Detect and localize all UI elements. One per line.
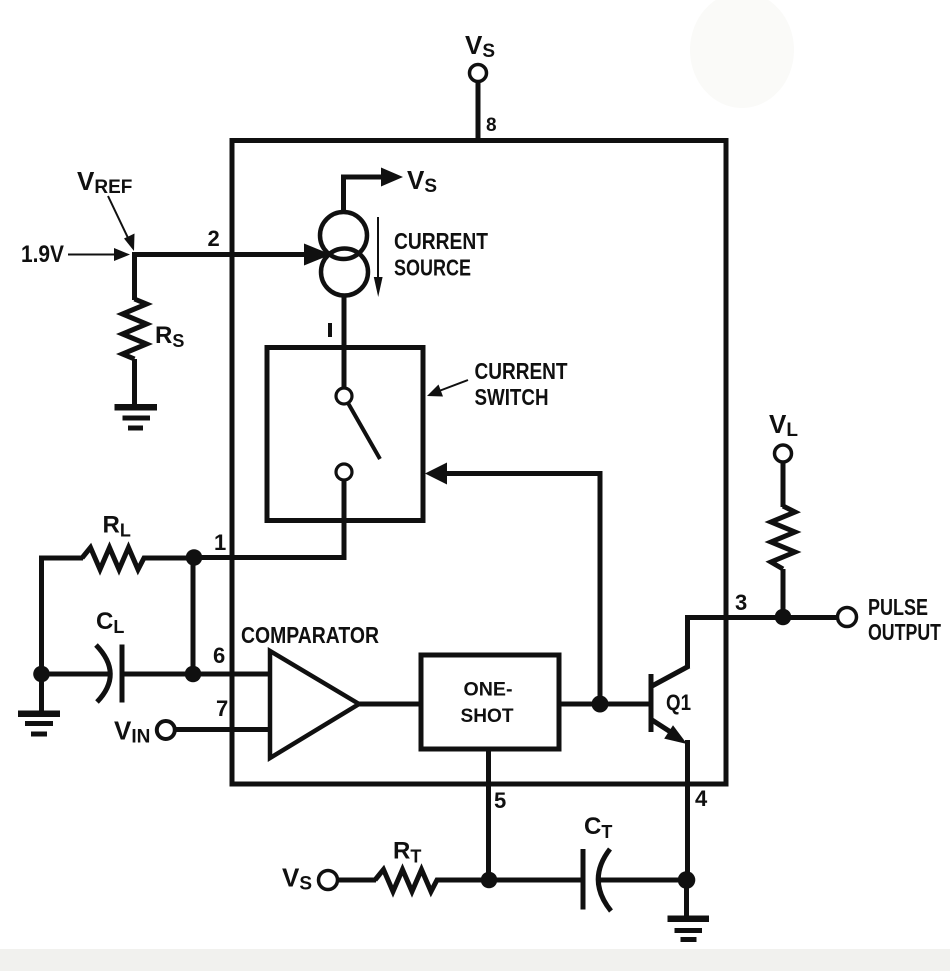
power terminal VS (bottom) <box>319 871 338 890</box>
node VREF junction <box>132 252 137 300</box>
svg-text:COMPARATOR: COMPARATOR <box>241 622 379 648</box>
input terminal VIN <box>157 721 175 739</box>
svg-text:4: 4 <box>695 786 708 811</box>
scan shading bottom strip <box>0 949 950 971</box>
switch contact (bottom) <box>336 464 352 480</box>
svg-text:5: 5 <box>494 788 506 813</box>
IC boundary box <box>232 141 726 785</box>
wire pin 1 rail <box>193 555 346 560</box>
svg-text:SWITCH: SWITCH <box>475 384 549 410</box>
wire comparator to one-shot <box>359 702 422 707</box>
node pulse output junction <box>775 609 792 626</box>
current switch box <box>267 348 423 521</box>
annotation arrow 1.9V pointer <box>68 248 130 261</box>
one-shot block <box>421 655 559 749</box>
resistor RL <box>44 548 193 570</box>
svg-text:8: 8 <box>486 115 497 136</box>
wire VL to resistor <box>781 462 786 507</box>
wire VS to RT <box>338 878 377 883</box>
wire one-shot output <box>559 702 602 707</box>
wire pin 3 output rail <box>685 615 839 620</box>
current source I1 <box>320 212 368 296</box>
svg-text:3: 3 <box>735 590 747 615</box>
op-amp comparator <box>270 651 359 758</box>
svg-text:7: 7 <box>216 696 228 721</box>
svg-text:PULSE: PULSE <box>868 594 928 620</box>
svg-text:SHOT: SHOT <box>461 706 514 727</box>
svg-text:OUTPUT: OUTPUT <box>868 619 941 645</box>
annotation arrow VREF pointer <box>108 196 135 251</box>
resistor (VL pull-up) <box>771 506 795 569</box>
resistor RT <box>375 870 441 892</box>
annotation arrow CURRENT SWITCH pointer <box>427 380 468 397</box>
resistor RS <box>123 299 147 359</box>
ground (below RS) <box>115 404 158 431</box>
wire resistor to pin 3 node <box>781 569 786 611</box>
svg-text:2: 2 <box>208 226 220 251</box>
node pin1/RL junction <box>186 549 203 566</box>
wire RL left leg down <box>39 556 44 676</box>
svg-text:1.9V: 1.9V <box>21 241 64 268</box>
capacitor CL <box>96 645 193 703</box>
wire RT to pin 5 node <box>441 878 489 883</box>
wire current source to internal VS arrow <box>344 168 404 215</box>
ground (below CL) <box>18 674 60 737</box>
wire feedback to current switch <box>425 463 600 705</box>
switch lever <box>348 403 380 459</box>
svg-text:6: 6 <box>213 643 225 668</box>
power terminal VS (top pin 8) <box>470 65 487 141</box>
node CL/ground junction <box>33 666 50 683</box>
wire RS to ground <box>132 359 137 405</box>
wire VS terminal to box top <box>476 82 481 141</box>
svg-text:Q1: Q1 <box>666 690 691 715</box>
wire into switch top contact <box>342 350 347 389</box>
wire pin 2 input to current source <box>133 244 331 266</box>
scan smudge top right <box>690 0 794 108</box>
svg-text:SOURCE: SOURCE <box>394 255 471 281</box>
node pin 6 junction <box>185 666 202 683</box>
wire junction to CL <box>42 672 109 677</box>
wire current source to switch box <box>342 294 347 350</box>
svg-text:CURRENT: CURRENT <box>394 228 488 254</box>
wire switch bottom to pin 1 rail <box>342 480 347 560</box>
output terminal PULSE OUTPUT <box>838 608 857 627</box>
wire junction 1 to junction 6 <box>191 558 196 675</box>
node one-shot output junction <box>592 696 609 713</box>
ground (below CT) <box>668 880 710 942</box>
switch contact (top) <box>336 388 352 404</box>
wire Q1 emitter to pin 4 <box>685 740 690 881</box>
label I (current) <box>328 323 332 337</box>
wire one-shot to pin 5 <box>486 749 491 881</box>
svg-text:1: 1 <box>214 530 226 555</box>
svg-text:ONE-: ONE- <box>464 680 513 701</box>
wire Q1 collector to pin 3 <box>685 615 690 668</box>
wire pin 5 node to CT <box>489 878 583 883</box>
svg-text:CURRENT: CURRENT <box>475 358 568 384</box>
current direction arrow <box>374 217 383 297</box>
wire pin 6 to comparator <box>193 672 272 677</box>
node pin 5 junction <box>481 872 498 889</box>
node pin 4 junction <box>678 871 696 889</box>
wire VIN to comparator (pin 7) <box>175 727 272 732</box>
wire junction to Q1 base <box>600 702 651 707</box>
transistor Q1 <box>651 666 689 744</box>
power terminal VL <box>775 445 792 462</box>
capacitor CT <box>583 849 678 911</box>
